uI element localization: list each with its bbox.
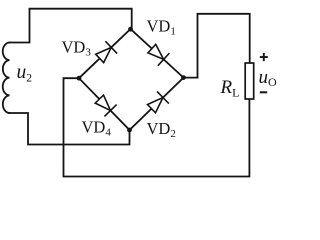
- svg-text:uO: uO: [259, 67, 278, 89]
- svg-text:VD1: VD1: [147, 17, 176, 38]
- svg-text:RL: RL: [220, 77, 240, 100]
- svg-text:VD2: VD2: [147, 119, 176, 140]
- svg-text:u2: u2: [17, 62, 33, 85]
- svg-text:VD4: VD4: [82, 118, 112, 139]
- svg-text:VD3: VD3: [62, 38, 92, 59]
